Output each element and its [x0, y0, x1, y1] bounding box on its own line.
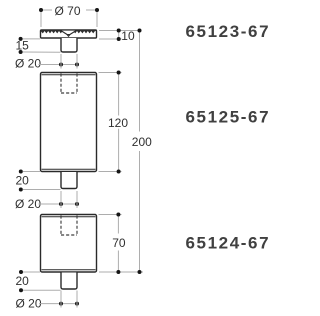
dimension 20 bottom extension lines: [23, 272, 61, 290]
svg-text:65124-67: 65124-67: [186, 234, 271, 253]
extension lines for Ø70: [41, 12, 97, 27]
dimension 10 line: [118, 31, 120, 40]
dimension 70 line: [117, 215, 119, 273]
dimension 15 extension lines: [23, 39, 61, 52]
svg-text:Ø 20: Ø 20: [16, 297, 42, 311]
dimension 70 extension lines: [99, 214, 122, 216]
cylinder bottom chamfer line: [42, 168, 96, 170]
dimension 120 line: [118, 73, 120, 172]
dimension Ø70 dots: [39, 8, 99, 12]
svg-text:70: 70: [112, 236, 126, 250]
disc stem: [61, 38, 77, 52]
dimension 120 extension lines: [99, 73, 122, 172]
cylinder body 65124-67: [41, 215, 97, 273]
dimension 20 mid dots: [19, 170, 23, 192]
dimension 10 dots: [117, 29, 121, 42]
dimension 200 line: [139, 31, 141, 273]
hidden threaded hole (dashed): [61, 74, 77, 94]
dimension 20 bottom dots: [19, 270, 23, 292]
disc serrated top edge: [41, 30, 96, 34]
disc countersink V opening: [61, 31, 76, 36]
hidden threaded hole (dashed): [61, 216, 77, 236]
dimension 200 dots: [138, 29, 142, 275]
dimension Ø20 mid line: [39, 203, 78, 205]
dimension 70 dots: [116, 213, 120, 275]
dimension 120 dots: [117, 71, 121, 174]
dimension 15 dots: [19, 37, 23, 54]
svg-text:65123-67: 65123-67: [186, 22, 271, 41]
svg-text:20: 20: [16, 274, 30, 288]
svg-text:Ø 20: Ø 20: [15, 56, 41, 70]
cylinder bottom chamfer line: [42, 269, 96, 271]
svg-text:10: 10: [121, 29, 135, 43]
disc body 65123-67: [41, 30, 97, 38]
cylinder stem: [61, 273, 77, 290]
cylinder body 65125-67: [41, 73, 97, 172]
svg-text:Ø 20: Ø 20: [15, 197, 41, 211]
svg-text:65125-67: 65125-67: [186, 108, 271, 127]
svg-text:120: 120: [108, 116, 128, 130]
dimension Ø20 mid extension lines: [61, 191, 77, 208]
svg-text:20: 20: [16, 174, 30, 188]
dimension Ø20 bottom dots: [59, 302, 79, 306]
dimension Ø20 top dots: [59, 63, 79, 67]
dimension Ø20 mid dots: [59, 202, 79, 206]
svg-text:15: 15: [16, 39, 30, 53]
svg-text:Ø 70: Ø 70: [54, 4, 80, 18]
dimension 20 mid extension lines: [23, 172, 61, 190]
dimension Ø20 top line: [39, 64, 78, 66]
cylinder top chamfer line: [42, 74, 96, 76]
cylinder top chamfer line: [42, 216, 96, 218]
disc countersink V outline: [61, 31, 76, 37]
dimension 200 extension lines: [99, 271, 143, 273]
cylinder stem: [61, 172, 77, 189]
dimension Ø20 bottom extension lines: [61, 291, 77, 308]
dimension Ø20 top extension lines: [61, 54, 77, 69]
dimension 10 extension lines: [99, 31, 142, 40]
svg-text:200: 200: [132, 135, 152, 149]
dimension Ø70 line: [41, 9, 97, 11]
dimension Ø20 bottom line: [39, 303, 77, 305]
